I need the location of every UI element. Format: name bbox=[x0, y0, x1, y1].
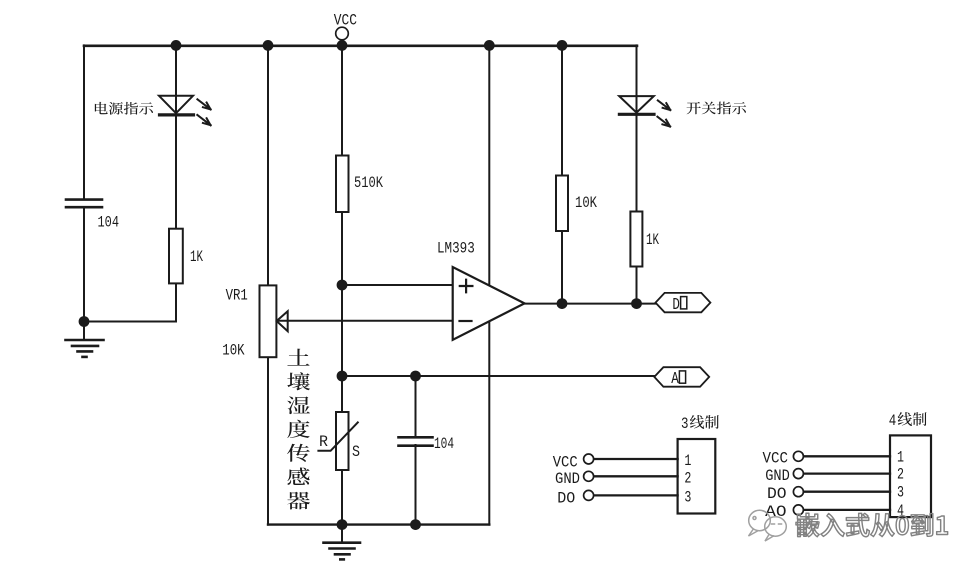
node rail-VR1 bbox=[263, 40, 274, 51]
pin 1 of J1 bbox=[553, 452, 692, 471]
ground bottom bbox=[324, 525, 361, 560]
watermark text 嵌入式从0到1 bbox=[796, 513, 948, 536]
svg-text:4: 4 bbox=[889, 412, 897, 430]
node GND left bbox=[79, 316, 90, 327]
svg-text:3: 3 bbox=[897, 484, 904, 502]
node DO-R5 bbox=[631, 298, 642, 309]
node AO left bbox=[337, 371, 348, 382]
label 4线制 bbox=[889, 412, 927, 430]
resistor R2 1K bbox=[169, 229, 203, 284]
wire C1 bottom to ground node bbox=[83, 208, 85, 322]
svg-text:1: 1 bbox=[684, 452, 691, 470]
wire sensor bottom to bottom rail bbox=[341, 470, 343, 525]
wire AO net bbox=[342, 375, 654, 377]
svg-text:VCC: VCC bbox=[334, 11, 357, 29]
svg-text:1K: 1K bbox=[646, 231, 659, 249]
wire op-amp supply column bbox=[488, 45, 490, 524]
node rail-R4 bbox=[557, 40, 568, 51]
wire R5 bottom to DO net bbox=[636, 267, 638, 304]
capacitor C2 104 bbox=[399, 435, 455, 453]
wire inverting input from VR1 wiper bbox=[276, 320, 452, 322]
sensor RS soil probe element bbox=[318, 412, 360, 470]
node AO output tag bbox=[654, 367, 709, 389]
connector J2 4-wire bbox=[890, 435, 931, 517]
pin 2 of J2 bbox=[765, 466, 904, 485]
svg-text:104: 104 bbox=[98, 214, 120, 232]
resistor R3 510K bbox=[336, 156, 383, 213]
svg-text:1: 1 bbox=[897, 448, 904, 466]
wire VCC stub to rail bbox=[341, 40, 343, 45]
resistor R5 1K bbox=[630, 212, 659, 267]
svg-text:GND: GND bbox=[555, 470, 580, 488]
LED D1 power indicator bbox=[159, 96, 211, 125]
node DO-R4 bbox=[557, 298, 568, 309]
wire C2 top lead bbox=[415, 376, 417, 437]
wire bottom ground rail bbox=[268, 523, 489, 525]
wire R4 bottom to DO net bbox=[561, 231, 563, 304]
node rail-opamp supply bbox=[484, 40, 495, 51]
pin 3 of J1 bbox=[557, 488, 691, 507]
pin 1 of J2 bbox=[763, 448, 905, 467]
svg-text:A: A bbox=[671, 370, 679, 389]
wire ground node to R2 bottom bbox=[84, 321, 176, 323]
wire VR1 bottom lead to bottom rail bbox=[267, 357, 269, 524]
label 电源指示 bbox=[95, 102, 153, 115]
LED D2 switch indicator bbox=[619, 96, 670, 126]
node bottom rail sensor bbox=[337, 519, 348, 530]
wire top VCC rail bbox=[84, 44, 637, 47]
svg-text:104: 104 bbox=[434, 435, 454, 453]
svg-text:VR1: VR1 bbox=[226, 287, 248, 305]
svg-text:VCC: VCC bbox=[553, 453, 578, 471]
svg-text:2: 2 bbox=[684, 469, 691, 487]
wire rail to R3 510K bbox=[341, 45, 343, 155]
node rail-VCC bbox=[337, 40, 348, 51]
svg-text:R: R bbox=[319, 433, 328, 451]
wire LED1 branch bbox=[175, 45, 177, 228]
svg-text:DO: DO bbox=[557, 490, 575, 508]
VCC power symbol bbox=[334, 11, 357, 40]
node + input bbox=[337, 280, 348, 291]
svg-text:1K: 1K bbox=[190, 248, 203, 266]
svg-text:DO: DO bbox=[767, 485, 787, 503]
svg-text:LM393: LM393 bbox=[437, 240, 475, 258]
svg-text:S: S bbox=[352, 443, 360, 461]
label 土壤湿度传感器 bbox=[287, 349, 310, 510]
svg-text:510K: 510K bbox=[354, 174, 383, 192]
node DO output tag bbox=[656, 293, 711, 315]
capacitor C1 104 bbox=[66, 200, 119, 232]
label 开关指示 bbox=[687, 102, 747, 115]
node rail-LED1 bbox=[171, 40, 182, 51]
svg-text:GND: GND bbox=[765, 467, 790, 485]
svg-text:D: D bbox=[672, 296, 680, 315]
wire R2 bottom lead bbox=[175, 283, 177, 321]
potentiometer VR1 10K bbox=[222, 285, 287, 359]
node AO-C2 bbox=[410, 371, 421, 382]
wire non-inverting input bbox=[342, 284, 453, 286]
wire C2 bottom lead bbox=[415, 445, 417, 525]
wire left branch down to C1 bbox=[83, 45, 85, 199]
ground left bbox=[66, 326, 104, 357]
wire rail to R4 10K bbox=[561, 45, 563, 175]
label 3线制 bbox=[681, 415, 719, 433]
svg-text:VCC: VCC bbox=[763, 450, 789, 468]
pin 4 of J2 bbox=[765, 502, 904, 521]
svg-text:3: 3 bbox=[684, 488, 691, 506]
wire R3 bottom through + node to sensor bbox=[341, 212, 343, 412]
pin 2 of J1 bbox=[555, 469, 691, 488]
wire LED2 branch bbox=[636, 45, 638, 211]
connector J1 3-wire bbox=[678, 439, 716, 514]
resistor R4 10K bbox=[556, 176, 597, 232]
svg-text:2: 2 bbox=[897, 466, 904, 484]
wire op-amp output DO net bbox=[525, 303, 656, 305]
watermark logo bbox=[749, 510, 787, 541]
svg-text:3: 3 bbox=[681, 415, 689, 433]
op-amp U1 LM393 bbox=[437, 240, 525, 340]
node bottom rail C2 bbox=[410, 519, 421, 530]
svg-text:10K: 10K bbox=[222, 341, 245, 359]
wire VR1 top lead bbox=[267, 45, 269, 285]
svg-text:10K: 10K bbox=[575, 194, 597, 212]
pin 3 of J2 bbox=[767, 484, 904, 503]
